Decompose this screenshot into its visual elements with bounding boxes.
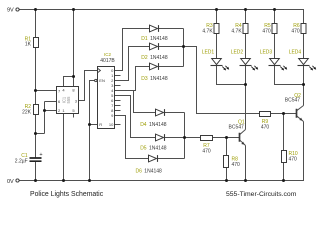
svg-text:D3: D3 [141, 76, 148, 82]
svg-text:470: 470 [202, 148, 211, 154]
svg-text:R: R [99, 122, 102, 127]
svg-text:1N4148: 1N4148 [149, 122, 167, 128]
svg-text:D6: D6 [136, 169, 143, 175]
svg-text:LED2: LED2 [231, 50, 244, 56]
svg-text:22K: 22K [22, 110, 32, 116]
svg-text:2.2µF: 2.2µF [15, 159, 28, 165]
svg-text:IC2: IC2 [104, 52, 112, 57]
svg-text:10: 10 [109, 122, 114, 127]
svg-text:0V: 0V [7, 179, 14, 185]
svg-text:D2: D2 [141, 55, 148, 61]
svg-text:1N4148: 1N4148 [150, 36, 168, 42]
svg-text:4.7K: 4.7K [231, 28, 242, 34]
svg-text:EN: EN [99, 78, 105, 83]
svg-text:4017B: 4017B [100, 58, 115, 64]
svg-text:1N4148: 1N4148 [144, 169, 162, 175]
svg-text:4.7K: 4.7K [202, 28, 213, 34]
svg-text:555-Timer-Circuits.com: 555-Timer-Circuits.com [226, 191, 297, 198]
svg-text:1N4148: 1N4148 [150, 55, 168, 61]
svg-text:470: 470 [261, 124, 270, 130]
svg-text:470: 470 [289, 156, 298, 162]
svg-text:1N4148: 1N4148 [149, 146, 167, 152]
svg-text:470: 470 [291, 28, 300, 34]
svg-text:LED4: LED4 [289, 50, 302, 56]
svg-text:470: 470 [232, 162, 241, 168]
svg-text:BC547: BC547 [229, 124, 245, 130]
svg-text:LED1: LED1 [202, 50, 215, 56]
svg-text:+: + [39, 152, 42, 158]
svg-text:Police Lights Schematic: Police Lights Schematic [30, 191, 104, 198]
svg-text:9V: 9V [7, 8, 14, 14]
svg-text:D5: D5 [140, 146, 147, 152]
svg-text:BC547: BC547 [285, 98, 301, 104]
svg-text:D4: D4 [140, 122, 147, 128]
svg-text:1K: 1K [25, 42, 32, 48]
svg-text:D1: D1 [141, 36, 148, 42]
svg-text:LED3: LED3 [260, 50, 273, 56]
svg-text:555: 555 [66, 96, 71, 104]
svg-text:1N4148: 1N4148 [150, 76, 168, 82]
svg-text:470: 470 [262, 28, 271, 34]
